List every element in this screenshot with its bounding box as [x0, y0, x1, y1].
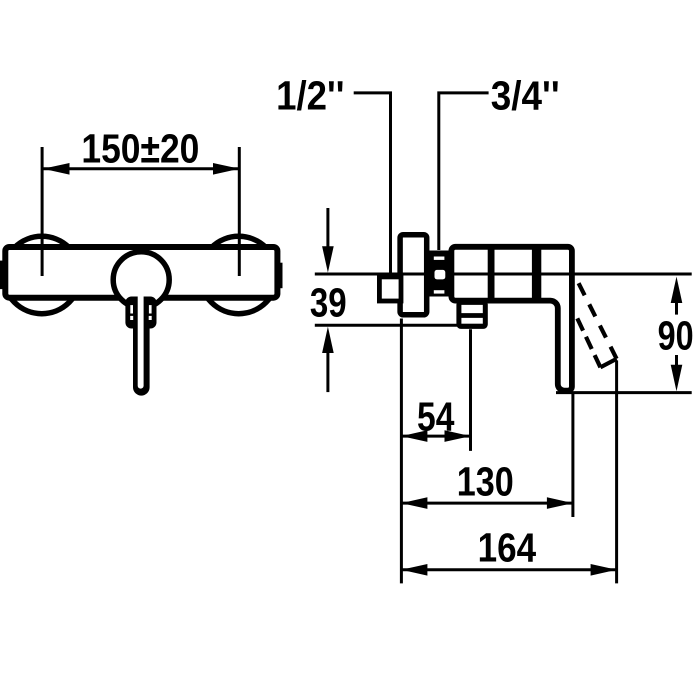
- front view: lever collar: [125, 297, 156, 329]
- reference line bottom 39: [315, 324, 487, 327]
- extension line 130 right: [571, 394, 574, 517]
- svg-text:164: 164: [478, 525, 537, 571]
- side view: body and lever outline: [451, 247, 572, 391]
- extension line 54 right: [469, 329, 472, 451]
- front view: collar slot right: [149, 305, 152, 313]
- leader line 3/4'': [439, 93, 489, 250]
- side view: lever alternate position dashed edge 2: [577, 318, 600, 367]
- front view: left wall flange circle: [3, 236, 80, 313]
- reference line bottom 90: [556, 391, 692, 394]
- dim 164 dimension line: [401, 568, 616, 571]
- side view: nut slot bottom: [434, 290, 445, 293]
- dim 150±20 arrow right: [213, 163, 240, 175]
- front view: right wall union stub: [276, 263, 283, 289]
- front view: mixer body: [5, 247, 277, 298]
- dim 90 bottom arrow: [675, 355, 678, 370]
- leader line 1/2'': [354, 93, 391, 274]
- side view: body division line 1: [488, 245, 495, 304]
- front view: cartridge cap circle: [113, 252, 169, 308]
- svg-text:90: 90: [658, 313, 694, 359]
- reference line top (39/90): [315, 273, 692, 276]
- side view: outlet groove: [457, 313, 487, 318]
- front view: collar slot left: [130, 305, 133, 313]
- extension line 164 right: [615, 361, 618, 584]
- side view: nut slot top: [434, 257, 445, 260]
- dim 150±20 arrow left: [43, 163, 70, 175]
- side view: wall escutcheon: [400, 235, 427, 315]
- side view: body division line 2: [532, 245, 541, 304]
- svg-text:150±20: 150±20: [81, 126, 199, 172]
- svg-text:39: 39: [310, 279, 347, 325]
- dim 150±20 extension line left: [41, 147, 44, 276]
- side view: inlet tab: [379, 277, 401, 301]
- front view: left wall union stub: [0, 261, 5, 290]
- front view: lever stem: [133, 298, 150, 396]
- dim 54 dimension line: [401, 435, 470, 438]
- dim 39 bottom arrow: [326, 350, 329, 392]
- dim 39 top arrow: [326, 208, 329, 250]
- front view: lever stem channel: [138, 292, 144, 389]
- svg-text:54: 54: [417, 393, 455, 439]
- dim 90 top arrow: [671, 277, 683, 303]
- dim 150±20 extension line right: [238, 147, 241, 276]
- dim 130 dimension line: [401, 502, 573, 505]
- side view: connection nut: [429, 251, 451, 297]
- svg-text:130: 130: [457, 459, 514, 505]
- dim 150±20 dimension line: [43, 167, 240, 170]
- front view: collar notch left: [130, 316, 133, 320]
- front view: collar notch right: [149, 316, 152, 320]
- svg-text:1/2'': 1/2'': [276, 73, 344, 119]
- side view: lever alternate position dashed tip: [600, 359, 616, 368]
- extension line left (54/130/164): [400, 319, 403, 584]
- side view: lever alternate position dashed edge 1: [579, 283, 617, 359]
- front view: right wall flange circle: [200, 236, 277, 313]
- svg-text:3/4'': 3/4'': [491, 73, 560, 119]
- side view: hose outlet: [459, 302, 485, 326]
- side view: nut square face: [435, 270, 446, 280]
